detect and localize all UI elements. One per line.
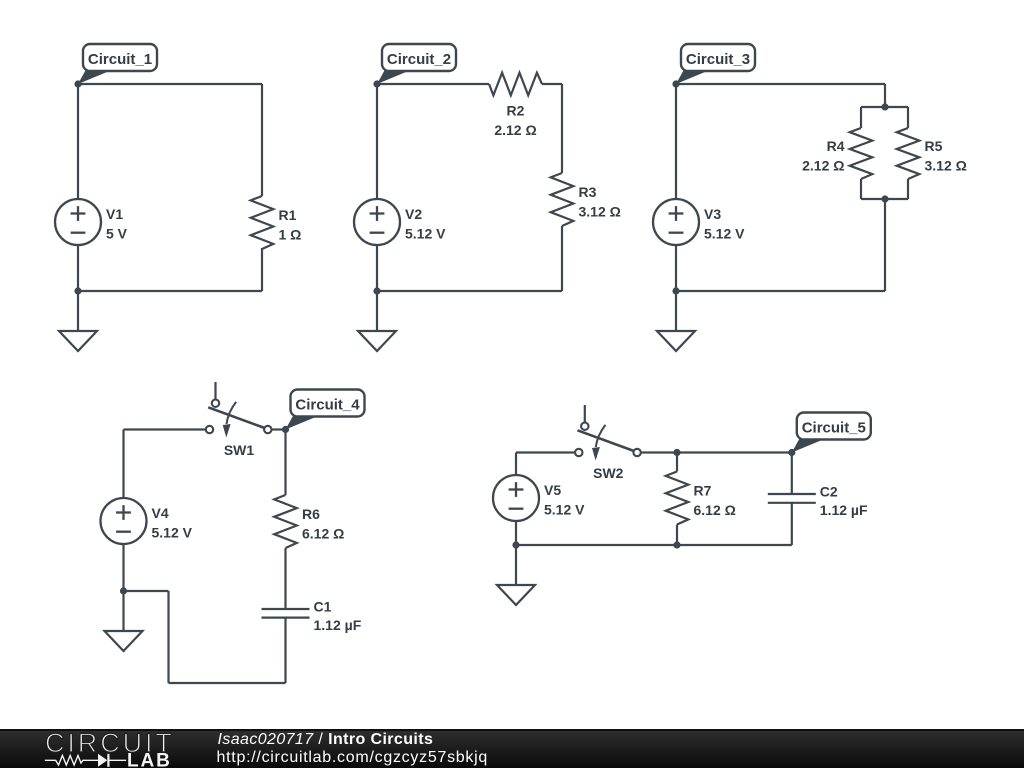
wire: [675, 291, 677, 331]
label callout Circuit_5: [792, 413, 871, 453]
wire: [78, 290, 262, 292]
wire: [377, 83, 489, 85]
ground: [358, 331, 396, 351]
node gnd4: [120, 587, 127, 594]
svg-text:5.12 V: 5.12 V: [405, 226, 446, 242]
svg-text:6.12 Ω: 6.12 Ω: [694, 502, 736, 518]
svg-text:Circuit_4: Circuit_4: [295, 397, 360, 414]
svg-text:Isaac020717 / Intro Circuits: Isaac020717 / Intro Circuits: [218, 731, 434, 748]
svg-text:1.12 µF: 1.12 µF: [314, 617, 362, 633]
wire: [77, 84, 79, 199]
wire: [676, 453, 678, 472]
ground: [105, 631, 143, 651]
svg-text:V3: V3: [704, 206, 721, 222]
wire: [376, 245, 378, 291]
wire: [377, 290, 562, 292]
resistor R3: [551, 173, 621, 226]
wire: [261, 248, 263, 291]
wire: [284, 618, 286, 683]
wire: [376, 84, 378, 199]
wire: [884, 84, 886, 107]
svg-text:R4: R4: [827, 138, 845, 154]
resistor R7: [666, 472, 736, 525]
resistor R1: [251, 196, 302, 249]
wire: [675, 84, 677, 199]
wire: [78, 83, 262, 85]
wire: [122, 544, 124, 591]
node C: [672, 80, 679, 87]
voltage source V3: [653, 199, 745, 245]
footer url text: [217, 749, 489, 766]
wire: [515, 521, 517, 545]
svg-text:6.12 Ω: 6.12 Ω: [302, 526, 344, 542]
logo resistor-diode squiggle: [45, 751, 172, 772]
node gnd5a: [512, 541, 519, 548]
svg-text:Circuit_1: Circuit_1: [88, 51, 152, 68]
svg-text:SW2: SW2: [593, 465, 624, 481]
svg-text:3.12 Ω: 3.12 Ω: [579, 204, 621, 220]
svg-text:R5: R5: [925, 138, 943, 154]
svg-text:R6: R6: [302, 506, 320, 522]
svg-text:2.12 Ω: 2.12 Ω: [494, 122, 536, 138]
wire: [907, 179, 909, 199]
wire: [122, 591, 124, 631]
svg-text:5.12 V: 5.12 V: [544, 502, 585, 518]
wire: [561, 226, 563, 291]
node P2: [881, 195, 888, 202]
svg-text:V1: V1: [106, 206, 123, 222]
node D: [282, 426, 289, 433]
wire: [861, 106, 908, 108]
resistor R4: [802, 128, 872, 179]
wire: [860, 107, 862, 128]
voltage source V4: [101, 498, 193, 544]
wire: [284, 548, 286, 609]
svg-text:R2: R2: [507, 103, 525, 119]
node P1: [881, 103, 888, 110]
wire: [272, 428, 286, 430]
wire: [261, 84, 263, 196]
ground: [59, 331, 97, 351]
svg-text:3.12 Ω: 3.12 Ω: [925, 158, 967, 174]
voltage source V5: [493, 475, 585, 521]
svg-text:LAB: LAB: [127, 751, 172, 769]
wire: [884, 199, 886, 291]
wire: [124, 590, 169, 592]
ground: [657, 331, 695, 351]
wire: [860, 179, 862, 199]
wire: [676, 525, 678, 546]
wire: [169, 682, 286, 684]
footer bar: [0, 729, 1024, 768]
label callout Circuit_2: [377, 44, 456, 84]
node gnd5b: [673, 541, 680, 548]
wire: [907, 107, 909, 128]
switch SW1: [206, 382, 272, 458]
capacitor C2: [768, 483, 868, 518]
wire: [516, 544, 792, 546]
node gnd1: [74, 287, 81, 294]
wire: [77, 245, 79, 291]
wire: [376, 291, 378, 331]
svg-text:V5: V5: [544, 482, 561, 498]
wire: [77, 291, 79, 331]
svg-text:5.12 V: 5.12 V: [704, 226, 745, 242]
svg-text:C2: C2: [820, 483, 838, 499]
svg-text:V4: V4: [152, 505, 169, 521]
wire: [122, 430, 124, 499]
svg-text:R1: R1: [279, 207, 297, 223]
svg-text:R3: R3: [579, 184, 597, 200]
label callout Circuit_1: [78, 44, 157, 84]
svg-text:5 V: 5 V: [106, 226, 128, 242]
node gnd3: [672, 287, 679, 294]
wire: [791, 503, 793, 545]
resistor R6: [274, 495, 344, 548]
wire: [791, 453, 793, 495]
node E1: [673, 449, 680, 456]
wire: [167, 591, 169, 683]
wire: [515, 545, 517, 585]
svg-text:C1: C1: [314, 598, 332, 614]
voltage source V2: [354, 199, 446, 245]
svg-text:2.12 Ω: 2.12 Ω: [802, 158, 844, 174]
wire: [515, 453, 517, 476]
wire: [542, 83, 562, 85]
svg-text:1 Ω: 1 Ω: [279, 227, 302, 243]
node gnd2: [373, 287, 380, 294]
node E2: [788, 449, 795, 456]
svg-text:5.12 V: 5.12 V: [152, 525, 193, 541]
ground: [497, 585, 535, 605]
svg-text:Circuit_5: Circuit_5: [802, 420, 866, 437]
wire: [640, 451, 792, 453]
voltage source V1: [55, 199, 128, 245]
resistor R5: [897, 128, 967, 179]
svg-text:Circuit_3: Circuit_3: [686, 51, 750, 68]
resistor R2: [489, 73, 542, 138]
wire: [124, 428, 206, 430]
wire: [561, 84, 563, 173]
svg-text:V2: V2: [405, 206, 422, 222]
wire: [676, 290, 885, 292]
wire: [675, 245, 677, 291]
svg-text:SW1: SW1: [224, 442, 255, 458]
wire: [861, 198, 908, 200]
svg-text:R7: R7: [694, 483, 712, 499]
CircuitLab logo wordmark: [45, 728, 175, 758]
node B: [373, 80, 380, 87]
switch SW2: [575, 405, 641, 481]
wire: [676, 83, 885, 85]
svg-text:Circuit_2: Circuit_2: [387, 51, 451, 68]
wire: [516, 451, 575, 453]
node A: [74, 80, 81, 87]
label callout Circuit_4: [286, 390, 365, 430]
svg-text:http://circuitlab.com/cgzcyz57: http://circuitlab.com/cgzcyz57sbkjq: [217, 749, 489, 766]
wire: [284, 430, 286, 496]
svg-text:1.12 µF: 1.12 µF: [820, 502, 868, 518]
capacitor C1: [262, 598, 362, 633]
footer title text: [218, 731, 434, 748]
label callout Circuit_3: [676, 44, 755, 84]
